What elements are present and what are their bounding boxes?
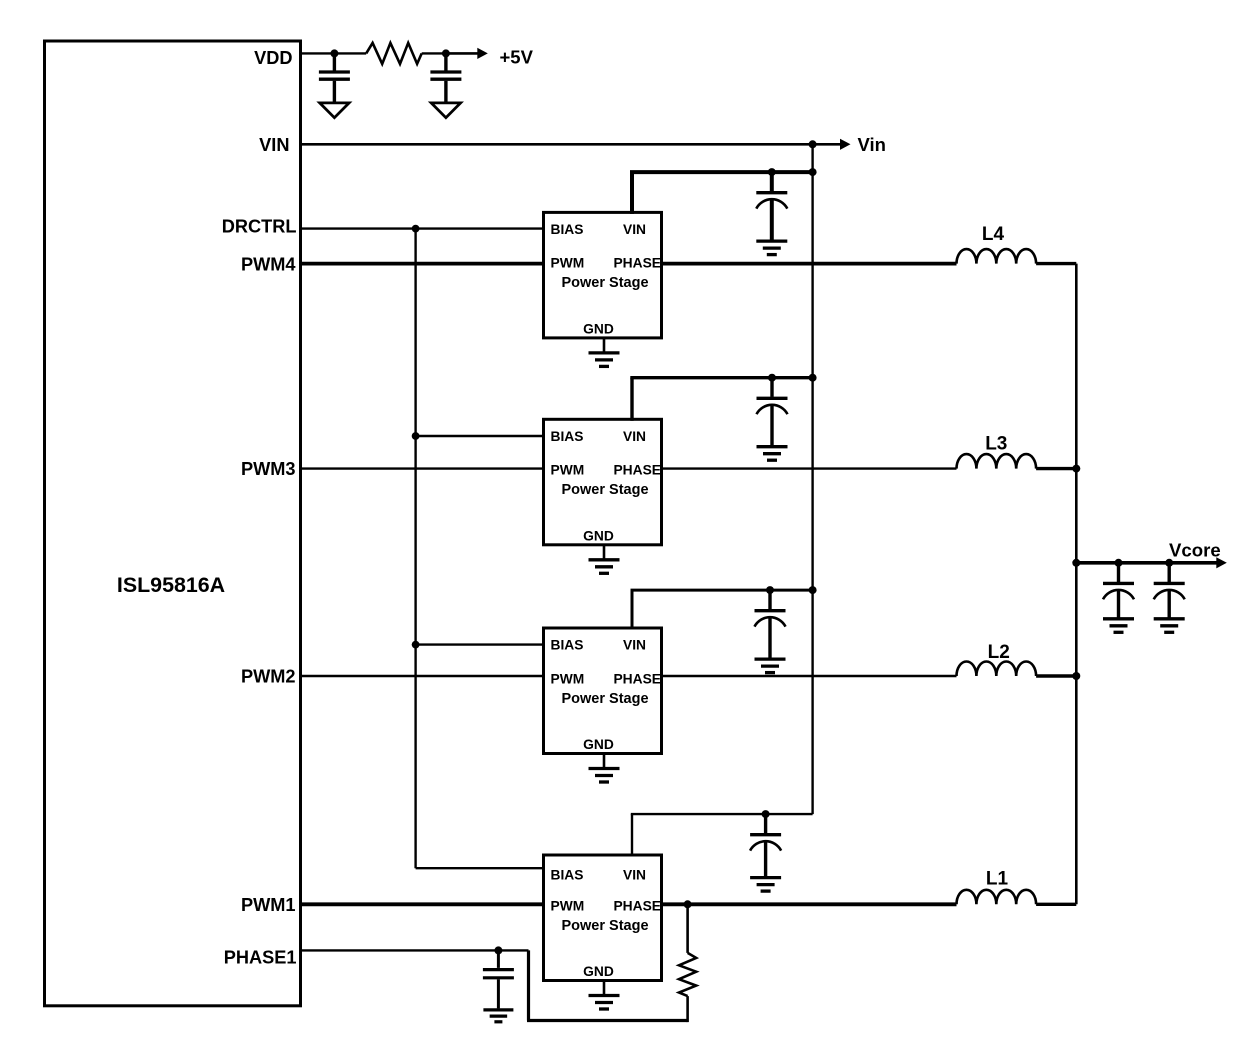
svg-text:BIAS: BIAS bbox=[551, 638, 584, 653]
wire stage 1 VIN feeder bbox=[631, 813, 813, 815]
svg-text:PHASE1: PHASE1 bbox=[224, 947, 297, 967]
wire bus to stage-4 BIAS bbox=[416, 867, 544, 869]
svg-text:BIAS: BIAS bbox=[551, 868, 584, 883]
node L2 rail junction bbox=[1072, 672, 1080, 680]
wire stage 3 GND stub bbox=[603, 545, 606, 559]
node PHASE1 cap junction bbox=[494, 946, 502, 954]
wire resistor top lead bbox=[686, 904, 689, 953]
svg-text:L2: L2 bbox=[988, 642, 1010, 663]
svg-text:Power Stage: Power Stage bbox=[561, 918, 648, 934]
svg-text:VIN: VIN bbox=[623, 868, 646, 883]
wire resistor to +5V node bbox=[422, 52, 446, 54]
svg-text:VIN: VIN bbox=[623, 638, 646, 653]
svg-text:L1: L1 bbox=[986, 869, 1009, 890]
capacitor C1 (VDD bypass) bbox=[333, 53, 336, 70]
node BIAS3 junction bbox=[412, 641, 420, 649]
wire stage 3 VIN feeder bbox=[630, 376, 812, 379]
node DRCTRL bus junction bbox=[412, 225, 420, 233]
resistor R1 (VDD filter) bbox=[366, 43, 422, 64]
wire PHASE to inductor L1 bbox=[662, 902, 957, 906]
ground stage 3 GND bbox=[589, 558, 620, 561]
power stage U2 (phase 1) box bbox=[544, 855, 662, 981]
inductor L2 bbox=[957, 662, 1037, 677]
node Vcore cap1 junction bbox=[1115, 559, 1123, 567]
wire Vcore vertical rail bbox=[1075, 264, 1078, 905]
svg-text:BIAS: BIAS bbox=[551, 429, 584, 444]
svg-text:PWM3: PWM3 bbox=[241, 459, 296, 479]
wire stage 3 VIN stub bbox=[630, 378, 633, 421]
wire PHASE1 down leg bbox=[527, 950, 530, 1020]
wire stage 4 VIN stub bbox=[630, 172, 634, 214]
wire PHASE to inductor L4 bbox=[662, 262, 957, 266]
node stage 3 cap tap bbox=[768, 374, 776, 382]
node stage 4 feeder-rail junction bbox=[809, 168, 817, 176]
capacitor C2 (+5V bypass) bbox=[444, 53, 447, 70]
wire stage 4 VIN feeder bbox=[630, 170, 813, 174]
wire stage 2 VIN stub bbox=[631, 590, 634, 629]
power stage U4 (phase 3) box bbox=[544, 419, 662, 545]
node stage 3 feeder-rail junction bbox=[809, 374, 817, 382]
ground stage 2 GND bbox=[589, 767, 620, 770]
svg-text:PHASE: PHASE bbox=[613, 671, 661, 686]
svg-text:GND: GND bbox=[583, 528, 614, 543]
power stage U5 (phase 4) box bbox=[544, 212, 662, 338]
svg-text:GND: GND bbox=[583, 322, 614, 337]
svg-text:VIN: VIN bbox=[259, 135, 289, 155]
svg-text:+5V: +5V bbox=[500, 47, 534, 68]
svg-text:PWM: PWM bbox=[551, 256, 585, 271]
wire VDD pin to resistor bbox=[301, 52, 367, 54]
svg-text:GND: GND bbox=[583, 737, 614, 752]
svg-text:DRCTRL: DRCTRL bbox=[222, 217, 297, 237]
wire PHASE1 pin bbox=[301, 949, 529, 951]
svg-text:Vcore: Vcore bbox=[1169, 540, 1221, 561]
node stage 2 cap tap bbox=[766, 586, 774, 594]
wire stage 4 GND stub bbox=[603, 338, 606, 352]
wire inductor L4 to Vcore rail bbox=[1036, 262, 1076, 265]
resistor R2 (phase sense) bbox=[679, 953, 696, 996]
node +5V-C2 junction bbox=[442, 49, 450, 57]
capacitor C3 (PHASE1 filter) bbox=[497, 950, 500, 968]
capacitor C_in4 (stage 4 input) bbox=[770, 172, 774, 191]
svg-text:PWM: PWM bbox=[551, 463, 585, 478]
wire PWM4 IC to stage bbox=[301, 262, 544, 266]
wire PWM2 IC to stage bbox=[301, 675, 544, 677]
svg-text:VDD: VDD bbox=[254, 48, 292, 68]
capacitor C_out1 (Vcore) bbox=[1117, 563, 1120, 582]
svg-text:Vin: Vin bbox=[858, 134, 886, 155]
ground C3 bbox=[483, 1008, 513, 1011]
svg-text:BIAS: BIAS bbox=[551, 222, 584, 237]
wire Vin arrow bbox=[813, 143, 842, 146]
wire VIN pin to Vin rail bbox=[301, 143, 813, 146]
wire stage 2 VIN feeder bbox=[631, 589, 813, 592]
svg-text:PHASE: PHASE bbox=[613, 463, 661, 478]
wire resistor bottom lead bbox=[686, 996, 689, 1022]
wire PHASE to inductor L3 bbox=[662, 467, 957, 469]
capacitor C_in2 (stage 2 input) bbox=[768, 590, 771, 609]
inductor L4 bbox=[957, 249, 1037, 264]
svg-text:PWM2: PWM2 bbox=[241, 667, 296, 687]
op-amp/controller IC U1 ISL95816A body bbox=[45, 41, 301, 1006]
wire bus to stage-2 BIAS bbox=[416, 435, 544, 437]
wire PWM3 IC to stage bbox=[301, 467, 544, 469]
wire inductor L2 to Vcore rail bbox=[1036, 674, 1076, 677]
wire PWM1 IC to stage bbox=[301, 902, 544, 906]
svg-text:PHASE: PHASE bbox=[613, 898, 661, 913]
wire DRCTRL vertical bus bbox=[414, 229, 416, 869]
svg-text:Power Stage: Power Stage bbox=[561, 482, 648, 498]
svg-text:PHASE: PHASE bbox=[613, 256, 661, 271]
wire inductor L3 to Vcore rail bbox=[1036, 467, 1076, 470]
wire stage 1 GND stub bbox=[603, 981, 606, 995]
node Vcore rail junction bbox=[1072, 559, 1080, 567]
wire DRCTRL pin to stage-4 BIAS (top run) bbox=[301, 227, 544, 229]
node stage 4 cap tap bbox=[768, 168, 776, 176]
wire PHASE to inductor L2 bbox=[662, 675, 957, 677]
capacitor C_in1 (stage 1 input) bbox=[764, 814, 767, 833]
svg-text:VIN: VIN bbox=[623, 222, 646, 237]
inductor L3 bbox=[957, 454, 1037, 469]
capacitor C_out2 (Vcore) bbox=[1167, 563, 1170, 582]
node Vcore cap2 junction bbox=[1165, 559, 1173, 567]
wire stage 2 GND stub bbox=[603, 754, 606, 768]
svg-text:PWM1: PWM1 bbox=[241, 895, 296, 915]
svg-text:Power Stage: Power Stage bbox=[561, 275, 648, 291]
wire stage 1 VIN stub bbox=[631, 814, 633, 856]
wire +5V arrow bbox=[446, 52, 479, 55]
wire VIN vertical rail bbox=[811, 144, 813, 814]
node Vin rail top junction bbox=[809, 140, 817, 148]
ground stage 1 GND bbox=[589, 994, 620, 997]
node stage 1 cap tap bbox=[762, 810, 770, 818]
inductor L1 bbox=[957, 890, 1037, 905]
node L3 rail junction bbox=[1072, 465, 1080, 473]
wire inductor L1 to Vcore rail bbox=[1036, 903, 1076, 906]
svg-text:PWM: PWM bbox=[551, 671, 585, 686]
power stage U3 (phase 2) box bbox=[544, 628, 662, 754]
wire Vcore output bbox=[1076, 561, 1216, 565]
svg-text:PWM4: PWM4 bbox=[241, 255, 296, 275]
ground stage 4 GND bbox=[589, 351, 620, 354]
svg-text:GND: GND bbox=[583, 964, 614, 979]
svg-text:L4: L4 bbox=[982, 224, 1005, 245]
capacitor C_in3 (stage 3 input) bbox=[770, 378, 773, 397]
node VDD-C1 junction bbox=[330, 49, 338, 57]
svg-text:Power Stage: Power Stage bbox=[561, 691, 648, 707]
svg-text:VIN: VIN bbox=[623, 429, 646, 444]
svg-text:ISL95816A: ISL95816A bbox=[117, 573, 225, 597]
wire bottom return bbox=[527, 1019, 688, 1022]
node PWM1-resistor junction bbox=[684, 900, 692, 908]
svg-text:PWM: PWM bbox=[551, 898, 585, 913]
node BIAS2 junction bbox=[412, 432, 420, 440]
wire bus to stage-3 BIAS bbox=[416, 643, 544, 645]
svg-text:L3: L3 bbox=[985, 434, 1007, 455]
node stage 2 feeder-rail junction bbox=[809, 586, 817, 594]
